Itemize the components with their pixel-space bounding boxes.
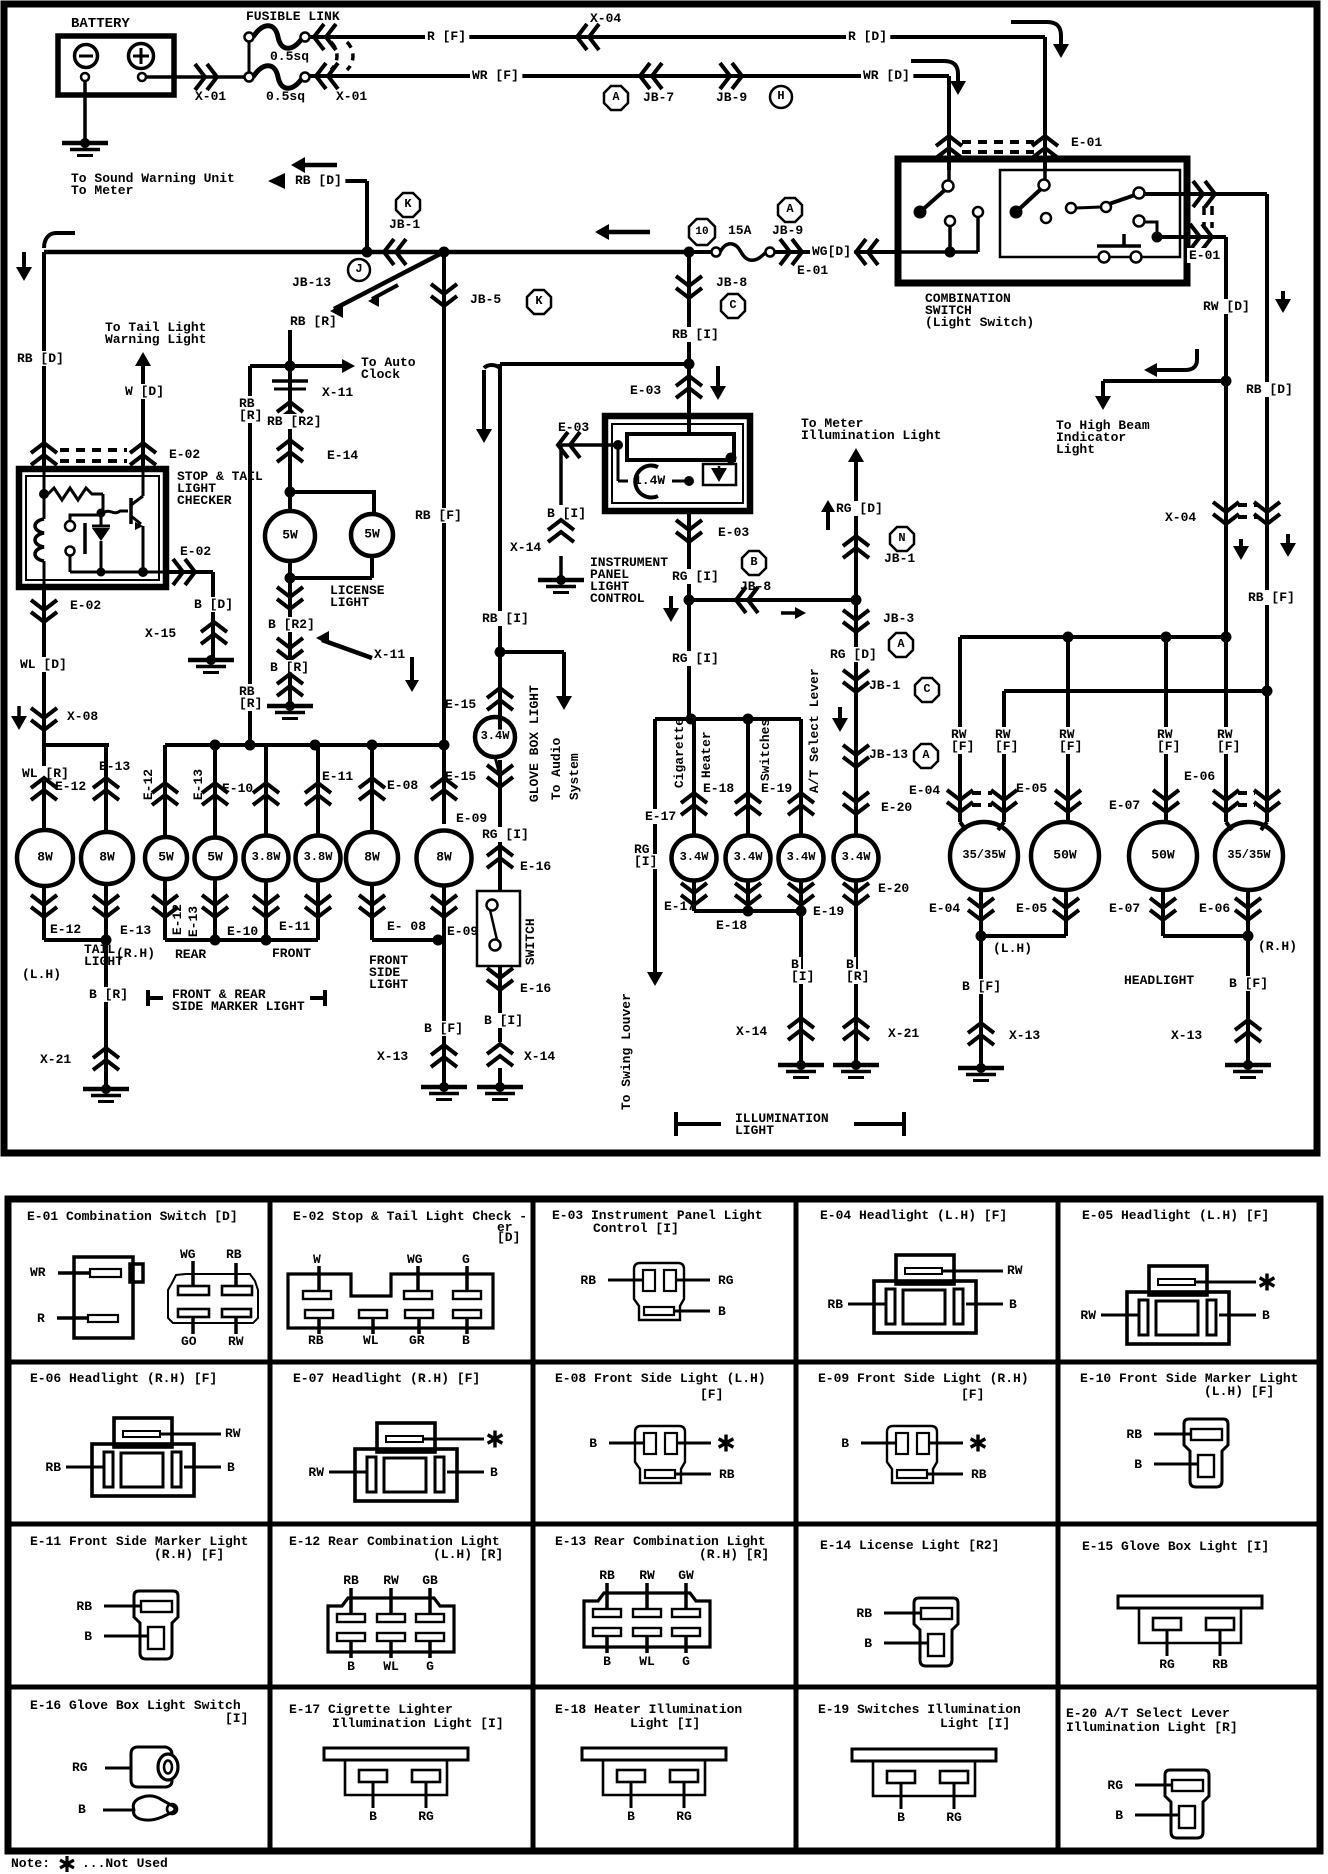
junction dot high beam	[1221, 376, 1232, 387]
svg-text:E-13: E-13	[99, 759, 130, 774]
tail light bus left	[44, 743, 109, 747]
svg-text:X-01: X-01	[336, 89, 367, 104]
svg-text:E-07: E-07	[1109, 798, 1140, 813]
wire below glove bulb	[495, 757, 500, 775]
svg-text:E-17: E-17	[664, 899, 695, 914]
ground license	[285, 701, 295, 711]
svg-text:X-21: X-21	[888, 1026, 919, 1041]
svg-text:Warning Light: Warning Light	[105, 332, 206, 347]
svg-text:E-16: E-16	[520, 859, 551, 874]
connector X-04 right	[1213, 502, 1239, 512]
svg-text:SWITCH: SWITCH	[523, 918, 538, 965]
svg-text:E-09: E-09	[456, 811, 487, 826]
wire to license bulb 2	[290, 492, 374, 514]
svg-text:B: B	[841, 1436, 849, 1451]
svg-text:35/35W: 35/35W	[962, 848, 1006, 862]
wire B exit left	[561, 443, 618, 447]
wire battery negative to ground	[83, 81, 87, 143]
junction A JB-13	[914, 744, 938, 768]
junction K	[527, 290, 551, 314]
checker transistor Q	[103, 511, 128, 513]
svg-text:E-17: E-17	[645, 809, 676, 824]
svg-text:[R]: [R]	[239, 696, 262, 711]
wire switch tail output	[1157, 235, 1226, 239]
checker relay coil	[43, 469, 46, 519]
svg-text:Light: Light	[1056, 442, 1095, 457]
svg-text:Light [I]: Light [I]	[630, 1716, 700, 1731]
svg-text:R: R	[37, 1311, 45, 1326]
svg-text:B: B	[1009, 1297, 1017, 1312]
svg-text:E-06: E-06	[1184, 769, 1215, 784]
svg-text:RB: RB	[343, 1573, 359, 1588]
svg-text:RB: RB	[1126, 1427, 1142, 1442]
svg-text:To Meter: To Meter	[71, 183, 133, 198]
svg-text:W [D]: W [D]	[125, 384, 164, 399]
labels RW[F]	[949, 727, 969, 742]
svg-text:E-08: E-08	[387, 778, 418, 793]
junction C JB-1	[915, 678, 939, 702]
svg-text:RG: RG	[72, 1760, 88, 1775]
cigarette bulb 3.4W	[672, 836, 717, 881]
svg-text:G: G	[462, 1252, 470, 1267]
ground X-13 RH headlight	[1243, 1060, 1253, 1070]
svg-text:E-16: E-16	[520, 981, 551, 996]
rear side marker bulb 5W RH	[195, 838, 236, 879]
svg-text:E-01 Combination Switch [D]: E-01 Combination Switch [D]	[27, 1209, 238, 1224]
svg-text:[F]: [F]	[1059, 739, 1082, 754]
connector E-01 right	[1193, 181, 1203, 207]
svg-text:GLOVE BOX LIGHT: GLOVE BOX LIGHT	[527, 685, 542, 802]
wire JB-5 down	[442, 252, 446, 745]
svg-text:B [D]: B [D]	[194, 597, 233, 612]
svg-text:WR [F]: WR [F]	[472, 68, 519, 83]
svg-text:[F]: [F]	[1157, 739, 1180, 754]
svg-text:[F]: [F]	[700, 1387, 723, 1402]
svg-text:B: B	[369, 1809, 377, 1824]
svg-text:Cigarette: Cigarette	[672, 718, 687, 788]
svg-text:8W: 8W	[436, 849, 452, 864]
svg-text:35/35W: 35/35W	[1227, 848, 1271, 862]
front side light bulb 8W LH	[346, 832, 398, 884]
svg-text:RB [I]: RB [I]	[672, 327, 719, 342]
svg-text:RB: RB	[856, 1606, 872, 1621]
svg-text:E-18: E-18	[716, 918, 747, 933]
headlight bus 2	[1004, 689, 1267, 693]
svg-text:E-07 Headlight (R.H) [F]: E-07 Headlight (R.H) [F]	[293, 1371, 480, 1386]
svg-text:E-20: E-20	[878, 881, 909, 896]
svg-text:X-01: X-01	[195, 89, 226, 104]
svg-text:E-03: E-03	[630, 383, 661, 398]
connector E-02 top	[31, 455, 57, 465]
high beam hook arrow	[1152, 349, 1197, 370]
svg-text:CONTROL: CONTROL	[590, 591, 645, 606]
svg-text:WG: WG	[407, 1252, 423, 1267]
junction K JB-1	[396, 193, 420, 217]
wire B[R] A/T ground	[854, 911, 858, 1065]
ground X-13 LH headlight	[976, 1063, 986, 1073]
svg-text:X-11: X-11	[374, 647, 405, 662]
svg-text:RB [D]: RB [D]	[1246, 382, 1293, 397]
svg-text:B: B	[490, 1465, 498, 1480]
instrument panel light control box E-03	[605, 416, 750, 511]
svg-text:RW: RW	[639, 1568, 655, 1583]
svg-text:JB-13: JB-13	[869, 747, 908, 762]
svg-text:B [R2]: B [R2]	[268, 617, 315, 632]
svg-text:B: B	[589, 1436, 597, 1451]
switch contact S2	[1010, 206, 1023, 219]
illumination lower chevrons	[692, 880, 696, 911]
svg-text:B: B	[1262, 1308, 1270, 1323]
arrow to audio system	[500, 650, 564, 654]
wire RG down to swing louver branch	[687, 600, 691, 719]
svg-text:B: B	[347, 1659, 355, 1674]
svg-text:WL [D]: WL [D]	[20, 657, 67, 672]
headlight bulb 50W RH	[1129, 822, 1197, 890]
svg-text:E-11: E-11	[279, 919, 310, 934]
front side marker bulb 3.8W LH	[244, 836, 289, 881]
svg-text:JB-1: JB-1	[869, 678, 900, 693]
svg-text:LIGHT: LIGHT	[369, 977, 408, 992]
svg-text:RB: RB	[599, 1568, 615, 1583]
svg-text:E-09 Front Side Light (R.H): E-09 Front Side Light (R.H)	[818, 1371, 1029, 1386]
junction J	[348, 259, 370, 281]
svg-text:WG: WG	[180, 1247, 196, 1262]
wire RB[I] down	[687, 252, 691, 416]
svg-text:RB: RB	[580, 1273, 596, 1288]
svg-text:E-18: E-18	[703, 781, 734, 796]
diagram border frame	[4, 4, 1317, 1153]
lamp 1.4W	[635, 466, 658, 498]
connector E-01 top	[936, 148, 962, 158]
svg-text:0.5sq: 0.5sq	[266, 89, 305, 104]
svg-text:E-15: E-15	[445, 697, 476, 712]
svg-text:10: 10	[695, 226, 708, 238]
license light bulb 5W L	[265, 511, 315, 561]
switch contact S1	[914, 206, 927, 219]
junction dot license	[285, 487, 296, 498]
svg-text:E-10: E-10	[222, 781, 253, 796]
svg-text:RB [F]: RB [F]	[1248, 590, 1295, 605]
wire to glove box light	[500, 362, 689, 366]
heater column	[746, 719, 750, 835]
continuation hook arrow WR	[911, 61, 958, 83]
svg-text:8W: 8W	[99, 849, 115, 864]
svg-text:RW [D]: RW [D]	[1203, 299, 1250, 314]
svg-text:8W: 8W	[37, 849, 53, 864]
svg-text:1.4W: 1.4W	[634, 473, 665, 488]
svg-text:E-14 License Light [R2]: E-14 License Light [R2]	[820, 1538, 999, 1553]
upper chevrons tail columns	[31, 790, 57, 800]
svg-text:JB-5: JB-5	[470, 292, 501, 307]
svg-text:[F]: [F]	[951, 739, 974, 754]
junction dot JB-5	[439, 247, 450, 258]
svg-text:GR: GR	[409, 1333, 425, 1348]
svg-text:(R.H): (R.H)	[116, 946, 155, 961]
svg-text:[I]: [I]	[791, 969, 814, 984]
svg-text:Note:: Note:	[11, 1856, 50, 1871]
connector E-04	[947, 790, 973, 800]
svg-text:X-13: X-13	[1009, 1028, 1040, 1043]
connector X-01 dashed	[331, 42, 337, 70]
svg-text:JB-9: JB-9	[772, 223, 803, 238]
combination switch box	[898, 159, 1187, 283]
svg-text:E-19 Switches Illumination: E-19 Switches Illumination	[818, 1702, 1021, 1717]
svg-text:B: B	[227, 1460, 235, 1475]
wire RB[D] left vertical	[42, 252, 46, 469]
svg-text:X-04: X-04	[1165, 510, 1196, 525]
wire RW[D] vertical	[1265, 194, 1269, 691]
svg-text:(L.H) [F]: (L.H) [F]	[1204, 1384, 1274, 1399]
svg-text:50W: 50W	[1053, 847, 1077, 862]
svg-text:E-05: E-05	[1016, 781, 1047, 796]
junction C	[721, 294, 745, 318]
svg-text:JB-1: JB-1	[389, 217, 420, 232]
svg-text:RB: RB	[76, 1599, 92, 1614]
svg-text:RG: RG	[1107, 1778, 1123, 1793]
svg-text:15A: 15A	[728, 223, 752, 238]
wire RG down JB-3	[854, 600, 858, 836]
svg-text:RG: RG	[1159, 1657, 1175, 1672]
svg-text:G: G	[426, 1659, 434, 1674]
wire B[F] front ground	[442, 940, 446, 1087]
svg-text:RG: RG	[418, 1809, 434, 1824]
svg-text:E-13: E-13	[120, 923, 151, 938]
headlight bulb 35/35W LH	[960, 822, 966, 830]
svg-text:HEADLIGHT: HEADLIGHT	[1124, 973, 1194, 988]
svg-text:R [F]: R [F]	[427, 29, 466, 44]
svg-text:B [I]: B [I]	[547, 506, 586, 521]
svg-text:[F]: [F]	[961, 1387, 984, 1402]
svg-text:E-17 Cigrette Lighter: E-17 Cigrette Lighter	[289, 1702, 453, 1717]
svg-text:X-13: X-13	[1171, 1028, 1202, 1043]
svg-text:RG: RG	[676, 1809, 692, 1824]
svg-text:3.4W: 3.4W	[680, 850, 710, 864]
wire R drop into switch	[1043, 37, 1047, 170]
svg-text:C: C	[923, 682, 930, 696]
connector E-05	[1055, 790, 1081, 800]
svg-text:RB [R2]: RB [R2]	[267, 414, 322, 429]
svg-text:(R.H): (R.H)	[1258, 939, 1297, 954]
headlight lower wires LH	[979, 890, 983, 936]
wire B[D] to ground X-15	[192, 597, 236, 612]
license light bottom join	[288, 561, 292, 578]
wire RB[R] license feed	[288, 330, 292, 492]
svg-text:RG [I]: RG [I]	[672, 651, 719, 666]
svg-text:N: N	[898, 531, 905, 545]
svg-text:RB: RB	[1212, 1657, 1228, 1672]
svg-text:E-09: E-09	[447, 924, 478, 939]
svg-text:5W: 5W	[364, 526, 380, 541]
svg-text:E-05: E-05	[1016, 901, 1047, 916]
headlight bulb 50W LH	[1031, 822, 1099, 890]
svg-text:RG [D]: RG [D]	[836, 501, 883, 516]
svg-text:X-14: X-14	[736, 1024, 767, 1039]
wire RB[D] vertical	[1224, 237, 1228, 637]
junction dot RG JB-3	[851, 595, 862, 606]
svg-text:X-04: X-04	[590, 11, 621, 26]
svg-text:[R]: [R]	[846, 969, 869, 984]
junction dot JB-8	[684, 247, 695, 258]
svg-text:3.8W: 3.8W	[252, 850, 282, 864]
svg-text:JB-7: JB-7	[643, 90, 674, 105]
svg-text:E-02: E-02	[180, 544, 211, 559]
svg-text:Clock: Clock	[361, 367, 400, 382]
ground X-21 A/T	[851, 1060, 861, 1070]
ground X-15	[206, 655, 216, 665]
svg-text:B: B	[84, 1629, 92, 1644]
arrow to auto clock	[290, 364, 330, 368]
svg-text:50W: 50W	[1151, 847, 1175, 862]
svg-text:E- 08: E- 08	[387, 919, 426, 934]
svg-text:B [F]: B [F]	[1229, 976, 1268, 991]
wire RB[I] glove box feed	[498, 364, 502, 737]
checker diode D	[97, 509, 106, 518]
wire battery positive to fusible link	[146, 75, 249, 79]
svg-text:E-04 Headlight (L.H) [F]: E-04 Headlight (L.H) [F]	[820, 1208, 1007, 1223]
svg-text:X-14: X-14	[524, 1049, 555, 1064]
wire RB[D] to sound warning	[365, 181, 369, 252]
svg-text:E-18 Heater Illumination: E-18 Heater Illumination	[555, 1702, 742, 1717]
svg-text:A/T Select Lever: A/T Select Lever	[807, 668, 822, 793]
rear bus	[165, 743, 444, 747]
svg-text:H: H	[777, 89, 784, 103]
stop and tail light checker box E-02	[19, 469, 166, 587]
svg-text:E-19: E-19	[813, 904, 844, 919]
bottom bus tail lights	[44, 938, 106, 942]
svg-text:(R.H) [F]: (R.H) [F]	[154, 1547, 224, 1562]
arrow to sound warning unit	[301, 163, 337, 168]
svg-text:B: B	[897, 1810, 905, 1825]
svg-text:System: System	[567, 753, 582, 800]
svg-text:J: J	[355, 262, 362, 276]
svg-text:RG [I]: RG [I]	[482, 827, 529, 842]
svg-text:[I]: [I]	[225, 1711, 248, 1726]
wire B[F] RH headlight ground	[1246, 936, 1250, 1065]
wire E-03 internal	[617, 445, 620, 481]
svg-text:Light [I]: Light [I]	[940, 1716, 1010, 1731]
switches column	[799, 719, 803, 835]
svg-text:JB-3: JB-3	[883, 611, 914, 626]
svg-text:FUSIBLE LINK: FUSIBLE LINK	[246, 9, 340, 24]
svg-text:E-15 Glove Box Light [I]: E-15 Glove Box Light [I]	[1082, 1539, 1269, 1554]
svg-text:E-02: E-02	[70, 598, 101, 613]
svg-text:SIDE MARKER LIGHT: SIDE MARKER LIGHT	[172, 999, 305, 1014]
svg-text:RB: RB	[719, 1467, 735, 1482]
svg-text:E-20: E-20	[881, 800, 912, 815]
svg-text:5W: 5W	[207, 849, 223, 864]
glove box light bulb 3.4W	[487, 700, 513, 710]
svg-text:A: A	[786, 202, 794, 216]
svg-text:WR [D]: WR [D]	[863, 68, 910, 83]
wire RG out of box	[687, 416, 691, 434]
svg-text:B: B	[78, 1802, 86, 1817]
svg-text:RB: RB	[827, 1297, 843, 1312]
svg-text:E-01: E-01	[1071, 135, 1102, 150]
svg-text:RB [D]: RB [D]	[295, 173, 342, 188]
svg-text:GB: GB	[422, 1573, 438, 1588]
wire R to combination switch	[310, 35, 1045, 39]
svg-text:E-12: E-12	[170, 904, 185, 935]
svg-text:B [F]: B [F]	[424, 1021, 463, 1036]
svg-text:RB: RB	[308, 1333, 324, 1348]
column wires above bulbs	[42, 745, 46, 830]
svg-text:B: B	[864, 1636, 872, 1651]
svg-text:RG: RG	[946, 1810, 962, 1825]
ground X-13 front	[439, 1082, 449, 1092]
svg-text:WL: WL	[383, 1659, 399, 1674]
ground X-14 control	[556, 575, 566, 585]
connector X-11	[272, 379, 308, 383]
svg-text:E-19: E-19	[761, 781, 792, 796]
svg-text:E-03: E-03	[718, 525, 749, 540]
svg-text:E-12: E-12	[50, 922, 81, 937]
svg-text:E-03: E-03	[558, 420, 589, 435]
svg-text:E-13: E-13	[186, 906, 201, 937]
illumination ground bus	[694, 909, 801, 913]
svg-text:...Not Used: ...Not Used	[82, 1856, 168, 1871]
svg-text:3.8W: 3.8W	[304, 850, 334, 864]
svg-text:3.4W: 3.4W	[481, 729, 511, 743]
svg-text:E-06: E-06	[1199, 901, 1230, 916]
junction dot audio branch	[495, 647, 506, 658]
svg-text:8W: 8W	[364, 849, 380, 864]
svg-text:[F]: [F]	[1217, 739, 1240, 754]
junction N	[890, 527, 914, 551]
svg-text:E-06 Headlight (R.H) [F]: E-06 Headlight (R.H) [F]	[30, 1371, 217, 1386]
svg-text:GO: GO	[181, 1334, 197, 1349]
svg-text:B [R]: B [R]	[89, 987, 128, 1002]
checker relay contacts	[65, 521, 75, 531]
svg-text:BATTERY: BATTERY	[71, 16, 130, 32]
front side marker bulb 3.8W RH	[296, 836, 341, 881]
tail light bulb 8W RH	[81, 832, 133, 884]
illumination light bracket	[674, 1112, 678, 1136]
front and rear side marker bracket	[146, 990, 150, 1006]
diagonal wire JB-13	[334, 252, 444, 309]
svg-text:Switches: Switches	[758, 719, 773, 782]
wire W[D] to tail warning light	[141, 360, 145, 469]
svg-text:X-11: X-11	[322, 385, 353, 400]
wire RG to meter illumination	[854, 455, 858, 600]
tail light bulb 8W LH	[17, 830, 73, 886]
svg-text:To Audio: To Audio	[549, 738, 564, 801]
svg-text:K: K	[404, 197, 412, 211]
svg-text:E-12: E-12	[55, 779, 86, 794]
headlight bus RW	[960, 635, 1226, 639]
svg-text:JB-1: JB-1	[884, 551, 915, 566]
svg-text:B: B	[462, 1333, 470, 1348]
svg-text:Illumination Light [R]: Illumination Light [R]	[1066, 1720, 1238, 1735]
junction dot to glove box feed	[684, 359, 695, 370]
wiper contact	[726, 453, 737, 464]
svg-text:RW: RW	[308, 1465, 324, 1480]
ground X-21 tail	[101, 1084, 111, 1094]
wire WR drop into switch	[947, 76, 951, 170]
connector table grid	[8, 1199, 1320, 1851]
svg-text:RW: RW	[383, 1573, 399, 1588]
junction A JB-9	[778, 198, 802, 222]
svg-text:JB-8: JB-8	[716, 275, 747, 290]
junction B	[742, 551, 766, 575]
svg-text:[I]: [I]	[634, 854, 657, 869]
svg-text:LIGHT: LIGHT	[735, 1123, 774, 1138]
svg-text:CHECKER: CHECKER	[177, 493, 232, 508]
wire WR to combination switch	[310, 74, 949, 78]
svg-text:RG [I]: RG [I]	[672, 569, 719, 584]
svg-text:WR: WR	[30, 1265, 46, 1280]
svg-text:RB: RB	[226, 1247, 242, 1262]
svg-text:RW: RW	[1007, 1263, 1023, 1278]
